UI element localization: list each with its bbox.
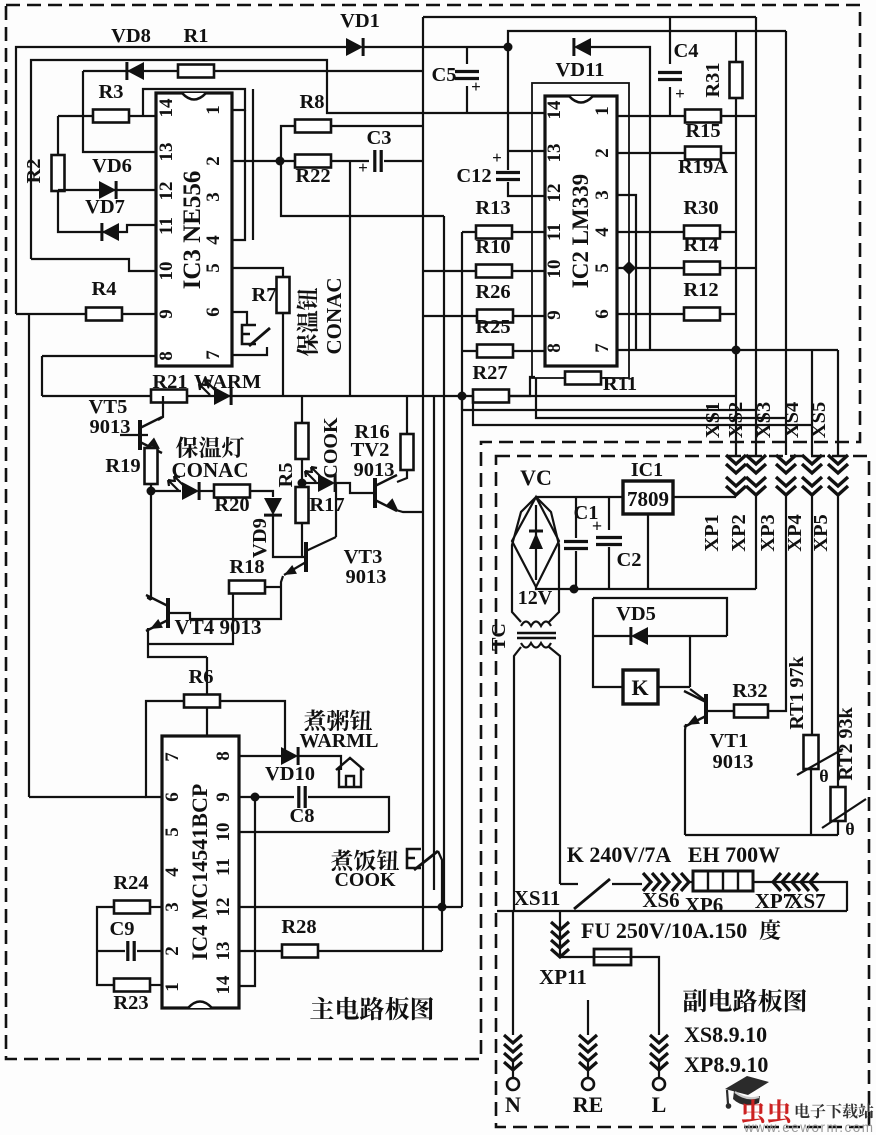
svg-text:+: +: [492, 148, 502, 167]
wire VT2 base left: [336, 483, 375, 493]
svg-text:8: 8: [156, 351, 177, 361]
label 主电路板图: [310, 997, 433, 1021]
svg-text:R26: R26: [475, 281, 510, 303]
svg-text:1: 1: [203, 105, 224, 115]
svg-text:4: 4: [203, 235, 224, 245]
resistor R2 vertical: [52, 155, 65, 191]
wire R24 row pin3: [150, 906, 162, 908]
wire R8 branch riser: [281, 126, 296, 161]
svg-text:R15: R15: [685, 120, 720, 142]
wire R27 row to XS1: [462, 395, 736, 397]
wire TC primary right lead: [549, 647, 560, 884]
wire XS5 vertical: [837, 350, 839, 455]
svg-text:R4: R4: [91, 278, 116, 300]
resistor R15: [685, 110, 721, 123]
terminal N circle: [512, 1062, 514, 1078]
svg-text:8: 8: [544, 343, 565, 353]
svg-text:8: 8: [213, 751, 234, 761]
wire top bus with VD1 from outer loop: [16, 47, 346, 314]
wire K loop top row598: [593, 598, 727, 636]
svg-text:IC4 MC14541BCP: IC4 MC14541BCP: [187, 784, 212, 961]
svg-text:R25: R25: [475, 316, 510, 338]
wire LED to R20: [200, 490, 215, 492]
svg-text:1: 1: [592, 106, 613, 116]
svg-text:R32: R32: [732, 680, 767, 702]
connector L arrows: [650, 1035, 668, 1070]
node R5 R17 junction: [298, 479, 307, 488]
svg-text:4: 4: [162, 867, 183, 877]
wire switch row to XS6: [612, 883, 642, 885]
svg-text:COOK: COOK: [334, 869, 396, 891]
wire R21 WARM row: [42, 395, 463, 397]
wire VT4 collector up: [148, 596, 151, 600]
watermark 电子下载站: [796, 1103, 874, 1118]
transistor VT5: [138, 420, 142, 450]
svg-text:VD11: VD11: [556, 59, 605, 81]
wire pin6 row left: [29, 796, 146, 798]
wire long vertical x444: [443, 216, 445, 907]
wire R2 top to R3 row: [57, 116, 59, 156]
svg-text:9: 9: [156, 309, 177, 319]
node junction row396 x462: [458, 392, 467, 401]
diode WARM LED: [214, 387, 231, 405]
svg-text:XS2: XS2: [725, 402, 747, 438]
svg-text:7809: 7809: [627, 487, 669, 511]
wire VD8 R1 row: [83, 70, 423, 72]
wire VD6 row pin12: [58, 189, 156, 191]
capacitor C9: [128, 941, 134, 961]
svg-text:R27: R27: [472, 362, 507, 384]
svg-text:RT2 93k: RT2 93k: [835, 707, 857, 781]
connector XP7 XS7 arrows: [792, 873, 818, 891]
wire R13 row pin11: [462, 231, 545, 233]
wire x42 down to R21 row: [41, 356, 43, 396]
node junction pin2: [276, 157, 285, 166]
svg-text:XP4: XP4: [784, 514, 806, 552]
svg-text:+: +: [592, 516, 602, 536]
svg-text:R23: R23: [113, 992, 148, 1014]
svg-text:EH 700W: EH 700W: [688, 842, 780, 867]
wire pin13 R28 row: [239, 950, 284, 952]
connector XS6 XP6 arrows: [643, 873, 669, 891]
watermark graduation cap: [725, 1076, 769, 1095]
wire XS4 vertical: [811, 350, 813, 455]
svg-text:11: 11: [156, 217, 177, 235]
wire pin5 row to R7: [232, 268, 283, 277]
connector N arrows: [504, 1035, 522, 1070]
wire R32 right up to XP3: [768, 495, 786, 711]
transistor VT1: [704, 694, 708, 724]
svg-text:R10: R10: [475, 236, 510, 258]
wire R20 right to VD9: [250, 491, 273, 497]
wire R8 right to long vertical: [331, 125, 423, 127]
svg-text:14: 14: [156, 98, 177, 118]
wire VT2 emitter row: [396, 510, 423, 512]
wire x83 riser to pin13 row: [83, 71, 156, 152]
svg-text:R2: R2: [23, 158, 45, 183]
resistor R22: [295, 155, 331, 168]
op-amp IC2 LM339 body: [545, 96, 617, 366]
switch 保温钮 contact: [242, 325, 256, 344]
wire IC3 pin2 row to R22 junction: [232, 160, 296, 162]
label 煮粥钮: [304, 709, 372, 731]
wire R26 row pin9: [423, 315, 545, 317]
svg-text:R7: R7: [251, 284, 276, 306]
svg-text:3: 3: [162, 902, 183, 912]
wire 0V rail row589: [536, 587, 756, 589]
svg-text:14: 14: [213, 975, 234, 995]
svg-text:9013: 9013: [354, 459, 395, 481]
transformer TC primary: [521, 643, 551, 648]
wire pin3 stub: [617, 195, 636, 350]
svg-text:COOK: COOK: [320, 417, 342, 479]
wire row 418 from IC2 outer box to XS3: [536, 378, 786, 418]
thermistor RT2: [831, 787, 846, 821]
svg-text:R22: R22: [295, 165, 330, 187]
svg-text:6: 6: [162, 792, 183, 802]
wire pin10 row: [239, 831, 389, 833]
svg-text:XP2: XP2: [728, 514, 750, 552]
svg-text:TV2: TV2: [351, 439, 390, 461]
svg-text:C12: C12: [456, 165, 491, 187]
svg-text:4: 4: [592, 227, 613, 237]
timer IC4 MC14541BCP body: [162, 736, 239, 1008]
label 保温灯: [176, 436, 244, 458]
svg-text:IC3 NE556: IC3 NE556: [179, 171, 206, 290]
connector XP11 arrows: [551, 922, 569, 957]
svg-text:3: 3: [592, 190, 613, 200]
wire pin6 to switch: [232, 312, 247, 325]
transformer TC core: [517, 633, 556, 638]
wire C3 right to vertical: [384, 160, 423, 162]
diode CONAC LED: [151, 490, 181, 492]
wire IC3 outer box top: [143, 89, 245, 116]
wire R25 row pin8: [462, 350, 545, 352]
terminal RE circle: [587, 1062, 589, 1078]
wire R16 top up: [406, 396, 408, 434]
diode VD1: [346, 38, 363, 56]
svg-text:R14: R14: [683, 234, 718, 256]
resistor R30: [684, 226, 720, 239]
capacitor C5: [466, 47, 468, 64]
wire COOK switch down to pin12 row: [438, 851, 442, 907]
wire IC2 outer box: [532, 83, 629, 378]
diode VD9 vertical: [264, 498, 282, 515]
wire VD5 drop to K row: [689, 636, 691, 687]
wire R5 top up: [301, 396, 303, 423]
svg-text:XS7: XS7: [788, 889, 825, 913]
svg-text:R28: R28: [281, 916, 316, 938]
svg-text:VD9: VD9: [249, 518, 271, 558]
node junction VD1 row x508: [504, 43, 513, 52]
wire pin7 row: [232, 347, 267, 355]
resistor R19A: [685, 147, 721, 160]
svg-text:+: +: [471, 77, 481, 96]
wire R23 row pin1: [150, 984, 162, 986]
transistor VT2: [373, 478, 377, 508]
wire R10 row pin10: [423, 270, 545, 272]
wire XS3 vertical: [785, 31, 787, 455]
wire RT2 down to rail: [837, 821, 839, 835]
wire x29 from R4 row: [28, 314, 30, 797]
svg-text:R31: R31: [702, 62, 724, 97]
wire pin4 risers: [232, 110, 245, 240]
svg-text:VD5: VD5: [616, 603, 656, 625]
wire XS2 vertical: [755, 17, 757, 455]
resistor R6: [184, 695, 220, 708]
svg-text:K 240V/7A: K 240V/7A: [567, 842, 672, 867]
svg-text:R8: R8: [299, 91, 324, 113]
wire VD10 to WARML button: [299, 756, 341, 770]
rectifier VC inner diode: [535, 505, 537, 580]
wire R6 right down: [220, 701, 285, 756]
svg-text:R3: R3: [98, 81, 123, 103]
wire R19 bottom to LED row: [150, 484, 152, 491]
wire second bus from x31: [31, 60, 545, 259]
wire COOK node down to R28 row: [441, 907, 443, 951]
wire row 425 to XS4: [473, 396, 812, 425]
svg-text:IC1: IC1: [631, 459, 663, 481]
svg-text:θ: θ: [845, 819, 854, 839]
resistor R12: [684, 308, 720, 321]
wire K right to VT1 collector: [658, 686, 690, 688]
transistor VT3: [304, 542, 308, 572]
wire XP2 down to rail: [755, 495, 757, 589]
connector RE arrows: [579, 1035, 597, 1070]
wire IC1 ground down: [647, 514, 649, 589]
capacitor C8: [299, 786, 305, 808]
wire XS1 vertical x736: [735, 98, 737, 455]
svg-text:CONAC: CONAC: [172, 458, 249, 482]
capacitor C4: [669, 17, 671, 64]
svg-text:XP11: XP11: [539, 965, 587, 989]
svg-text:VC: VC: [520, 465, 552, 490]
wire bridge outer left: [512, 497, 536, 622]
svg-text:K: K: [631, 675, 648, 700]
svg-text:R11: R11: [603, 373, 637, 395]
svg-text:9: 9: [213, 792, 234, 802]
resistor R4: [86, 308, 122, 321]
resistor R26: [477, 310, 513, 323]
wire emitter rail row835: [685, 834, 838, 836]
svg-text:R17: R17: [309, 494, 344, 516]
svg-text:9: 9: [544, 310, 565, 320]
svg-text:2: 2: [203, 156, 224, 166]
wire R6 left to pin6: [146, 701, 184, 797]
svg-text:VD10: VD10: [265, 763, 315, 785]
resistor R3: [93, 110, 129, 123]
wire VT3 collector: [306, 537, 336, 551]
svg-text:WARML: WARML: [300, 730, 379, 752]
diode VD6: [99, 181, 116, 199]
wire VD9 down to VT3 base: [273, 516, 306, 557]
node junction rail: [570, 585, 579, 594]
svg-text:XS11: XS11: [514, 886, 561, 910]
svg-text:XP3: XP3: [757, 514, 779, 552]
transistor VT4: [166, 598, 170, 628]
wire pin8 VD10 row: [239, 755, 282, 757]
wire EH right: [753, 882, 847, 911]
wire R5 bottom to R17: [301, 459, 303, 488]
svg-text:XP1: XP1: [701, 514, 723, 552]
svg-text:R30: R30: [683, 197, 718, 219]
wire XP5 down to RT2: [837, 495, 839, 787]
wire R12 row pin6: [617, 313, 736, 315]
connector XP1 arrows: [726, 455, 746, 495]
wire R24 left rail: [97, 907, 114, 985]
watermark 虫虫 red text: [742, 1099, 791, 1123]
node junction pin9: [251, 793, 260, 802]
rectifier VC bridge diamond: [512, 497, 559, 587]
svg-text:CONAC: CONAC: [322, 278, 346, 355]
svg-text:VT5: VT5: [89, 396, 128, 418]
wire VT1 collector: [690, 689, 706, 701]
wire vertical x434: [433, 396, 435, 890]
wire VD11 row corner down: [591, 47, 650, 350]
wire fuse branch from x560: [560, 911, 594, 957]
wire R19A row pin2: [617, 152, 736, 154]
svg-text:+: +: [358, 158, 368, 177]
wire long vertical x423: [422, 17, 424, 951]
svg-text:R5: R5: [275, 462, 297, 487]
resistor R5 vertical: [296, 423, 309, 459]
wire bridge outer right: [536, 497, 559, 622]
wire row31 from x508: [508, 31, 786, 47]
diode VD5: [593, 635, 631, 637]
wire VT2 collector to R16: [397, 470, 407, 482]
resistor R11 on outer box bottom: [565, 372, 601, 385]
regulator IC1 7809 box: [623, 481, 673, 514]
node diamond pin5: [622, 261, 636, 275]
wire VD7 row to pin11: [58, 190, 156, 232]
svg-text:VD6: VD6: [92, 155, 132, 177]
svg-text:C8: C8: [289, 805, 314, 827]
svg-text:13: 13: [156, 143, 177, 162]
resistor R31 vertical: [730, 62, 743, 98]
transformer TC secondary: [521, 622, 551, 627]
connector XP2 arrows: [746, 455, 766, 495]
svg-text:C9: C9: [109, 918, 134, 940]
wire R22 to C3: [331, 160, 369, 162]
svg-text:6: 6: [203, 307, 224, 317]
svg-text:VT4 9013: VT4 9013: [175, 615, 262, 639]
label 副电路板图: [683, 989, 806, 1013]
svg-text:9013: 9013: [713, 751, 754, 773]
svg-text:R21: R21: [152, 371, 187, 393]
wire pin12 row: [239, 906, 462, 908]
svg-text:R13: R13: [475, 197, 510, 219]
wire x207 down to IC4: [206, 657, 208, 735]
svg-text:VT1: VT1: [710, 730, 749, 752]
resistor R7 vertical: [277, 277, 290, 313]
svg-text:R12: R12: [683, 279, 718, 301]
svg-text:C4: C4: [673, 40, 698, 62]
wire VT4 base right: [168, 613, 255, 619]
switch 煮粥钮 WARML button house icon: [336, 758, 364, 787]
switch K blade: [574, 879, 610, 909]
svg-text:13: 13: [544, 144, 565, 163]
wire pin10 row from bus: [31, 259, 156, 271]
svg-text:VD7: VD7: [85, 196, 125, 218]
svg-text:2: 2: [162, 946, 183, 956]
svg-text:+: +: [675, 84, 685, 103]
wire R14 row pin5: [617, 267, 756, 269]
svg-text:FU 250V/10A.150: FU 250V/10A.150: [581, 918, 747, 943]
wire long vertical x462: [461, 232, 463, 907]
svg-text:XP5: XP5: [810, 514, 832, 552]
resistor R1: [178, 65, 214, 78]
label 煮饭钮: [331, 849, 399, 871]
diode VD8: [127, 62, 144, 80]
svg-text:13: 13: [213, 942, 234, 961]
wire C9 row pin2: [97, 950, 125, 952]
wire R15 row pin1: [617, 111, 756, 116]
svg-text:7: 7: [203, 350, 224, 360]
fuse FU: [594, 949, 631, 965]
resistor R14: [684, 262, 720, 275]
wire pin7 row to XS5: [617, 348, 838, 350]
diode VD7: [102, 223, 119, 241]
capacitor C1: [575, 497, 577, 538]
svg-text:12: 12: [156, 182, 177, 201]
wire VT1 base to R32: [706, 710, 735, 712]
diode VD11 on row47: [574, 38, 591, 56]
svg-text:11: 11: [544, 223, 565, 241]
svg-text:12: 12: [544, 184, 565, 203]
wire R30 row pin4: [617, 231, 736, 233]
wire N vertical: [512, 911, 514, 1035]
svg-text:RT1 97k: RT1 97k: [786, 656, 808, 730]
wire R7 bottom down to R21 row: [282, 313, 284, 396]
resistor R23: [114, 979, 150, 992]
label 保温钮 rotated: [296, 288, 318, 356]
wire pin8 row: [42, 355, 156, 357]
svg-text:XS6: XS6: [642, 888, 679, 912]
svg-text:θ: θ: [819, 766, 828, 786]
svg-text:10: 10: [156, 262, 177, 281]
svg-text:7: 7: [162, 752, 183, 762]
wire bridge top to IC1: [536, 496, 623, 498]
svg-text:C5: C5: [431, 64, 456, 86]
resistor R24: [114, 901, 150, 914]
wire VT4 collector riser: [150, 491, 152, 600]
svg-text:10: 10: [213, 823, 234, 842]
wire VT3 emitter down: [284, 562, 306, 575]
svg-text:11: 11: [213, 858, 234, 876]
resistor R8: [295, 120, 331, 133]
svg-text:R18: R18: [229, 556, 264, 578]
svg-text:R20: R20: [214, 494, 249, 516]
svg-text:2: 2: [592, 148, 613, 158]
wire VT4 emitter down: [148, 628, 207, 657]
svg-text:R19A: R19A: [678, 156, 728, 178]
svg-text:XP6: XP6: [685, 893, 724, 917]
wire VT5 base left: [120, 434, 148, 436]
wire RT1 down to rail: [810, 769, 812, 835]
svg-text:IC2 LM339: IC2 LM339: [568, 174, 593, 288]
wire IC1 output to XP1: [673, 496, 736, 498]
wire branch x350 down: [349, 161, 351, 396]
wire top row17: [423, 16, 756, 18]
svg-text:N: N: [505, 1092, 521, 1117]
svg-text:VD8: VD8: [111, 25, 151, 47]
resistor R25: [477, 345, 513, 358]
wire row 408 to XS2: [461, 396, 463, 410]
svg-text:XS1: XS1: [702, 402, 724, 438]
wire R4 row pin9: [16, 313, 156, 315]
resistor R27: [473, 390, 509, 403]
op-amp IC3 NE556 body: [156, 93, 232, 366]
